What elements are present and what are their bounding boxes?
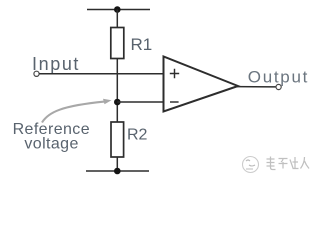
svg-text:voltage: voltage	[24, 136, 78, 153]
wire bottom rail	[86, 170, 149, 172]
watermark logo icon	[243, 157, 259, 173]
svg-text:R2: R2	[127, 127, 148, 144]
wire R1 top lead	[116, 10, 118, 29]
wire output	[237, 86, 276, 88]
wire inverting input	[117, 101, 163, 103]
plus input marker	[170, 69, 179, 78]
wire top rail	[87, 9, 150, 11]
resistor R1	[111, 28, 124, 59]
wire R2 bottom lead	[116, 157, 118, 171]
svg-text:Input: Input	[32, 54, 80, 74]
resistor R2	[111, 122, 124, 157]
svg-text:R1: R1	[131, 35, 153, 54]
wire noninverting input	[39, 73, 163, 75]
op-amp U1	[164, 57, 239, 112]
minus input marker	[170, 101, 179, 103]
wire divider vertical	[116, 59, 118, 123]
node bottom junction	[114, 168, 121, 175]
annotation arrow	[42, 102, 105, 123]
watermark text (stylized CJK strokes)	[267, 157, 310, 170]
terminal input	[34, 71, 39, 76]
node top junction	[114, 6, 121, 13]
node reference junction	[114, 99, 121, 106]
terminal output	[276, 84, 281, 89]
svg-text:Output: Output	[248, 68, 309, 87]
